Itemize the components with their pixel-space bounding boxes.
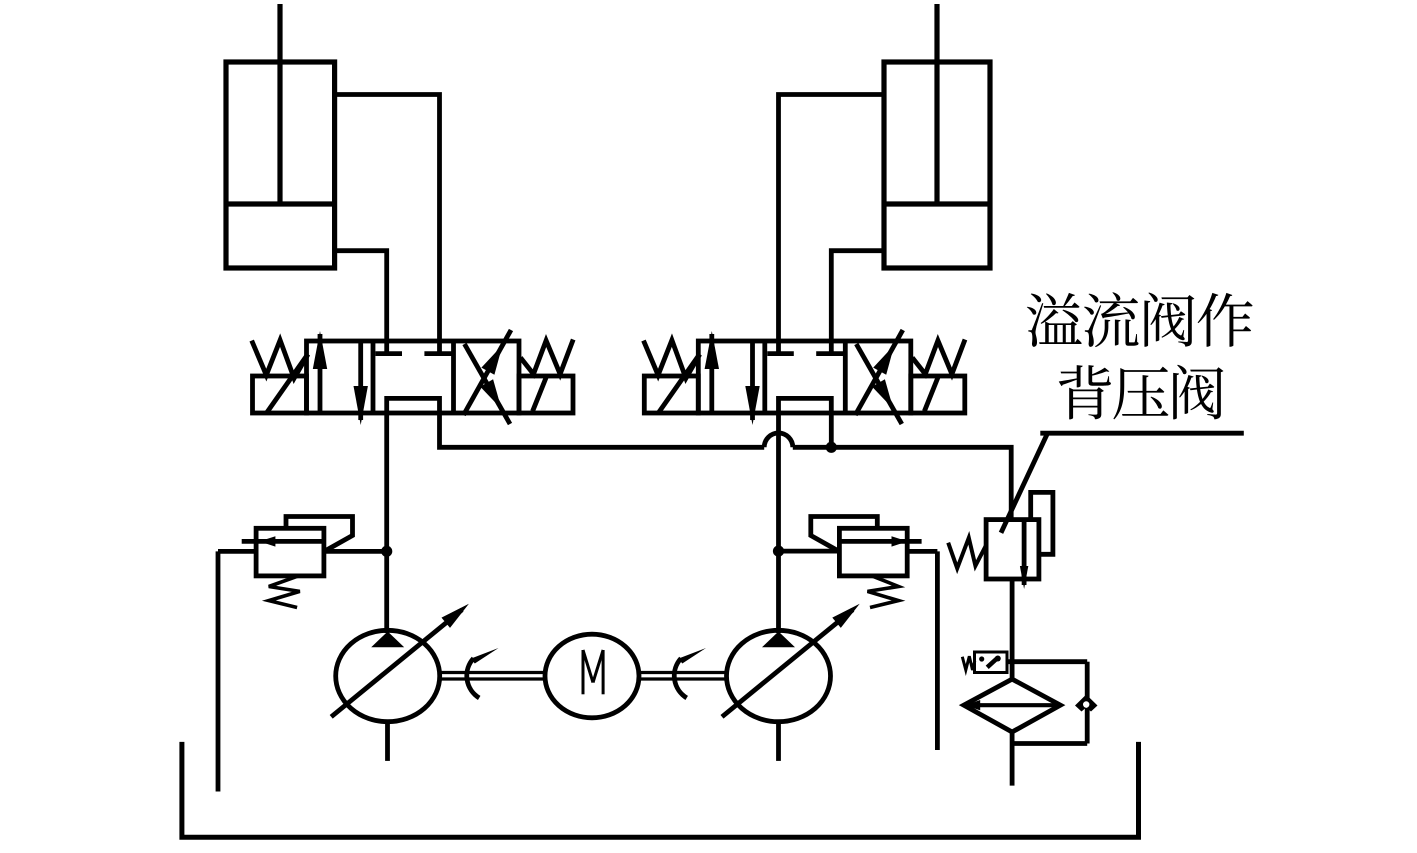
valve V2 left position flow arrows — [705, 331, 760, 425]
back-pressure valve flow arrow — [1020, 521, 1028, 589]
relief valve RV1 pilot line — [286, 517, 353, 552]
valve V1 right position crossed flow arrows — [464, 330, 512, 424]
relief valve RV2 flow arrow — [841, 536, 921, 546]
valve V2 left solenoid — [644, 354, 699, 413]
relief valve RV2 body — [839, 528, 907, 576]
valve V1 right solenoid — [519, 376, 573, 413]
junction node pump2-relief2 — [773, 546, 784, 557]
4/3 directional valve V2 body — [698, 341, 911, 413]
relief valve RV1 spring — [269, 576, 300, 608]
valve V2 center position blocked ports and P-T bypass — [767, 341, 843, 413]
back-pressure valve pilot line — [1031, 492, 1053, 554]
wire pump2 suction to tank — [776, 722, 781, 761]
valve V2 right position crossed flow arrows — [855, 330, 903, 424]
variable displacement pump P2 — [722, 604, 860, 722]
drive shaft motor-pump2 — [639, 673, 726, 680]
wire cylinder1 cap-end port to valve1 port A — [335, 251, 387, 343]
bypass valve on filter — [962, 652, 1007, 673]
wire valve1 P to pump1 — [384, 413, 389, 633]
wire valve2 T down — [829, 413, 834, 447]
wire crossover bridge over pump2 line — [764, 433, 793, 447]
wire RV1 inlet — [324, 549, 387, 554]
cylinder 2 piston rod — [934, 4, 939, 206]
valve V1 left solenoid — [253, 354, 308, 413]
valve V2 right solenoid — [911, 376, 965, 413]
wire filter to tank — [1010, 732, 1015, 786]
valve V1 left position flow arrows — [313, 331, 368, 425]
wire bypass right leg — [1012, 662, 1087, 744]
wire RV2 outlet to tank — [907, 551, 937, 750]
valve V1 right spring — [521, 340, 574, 375]
wire cylinder2 cap-end port to valve2 port B — [831, 251, 884, 343]
electric motor M — [545, 634, 639, 718]
relief valve RV2 pilot line — [811, 517, 878, 552]
junction node valve2 T — [826, 442, 837, 453]
junction node pump1-relief1 — [381, 546, 392, 557]
annotation text 溢流阀作背压阀 — [1027, 292, 1253, 419]
valve V2 left spring — [644, 340, 700, 378]
wire valve1 T to back-pressure line — [440, 413, 765, 447]
cylinder 2 body — [884, 62, 990, 268]
wire cylinder2 rod-end port to valve2 port A — [779, 95, 885, 344]
tank — [182, 742, 1139, 837]
valve V2 right spring — [912, 340, 965, 375]
valve V1 center position blocked ports and P-T bypass — [376, 341, 452, 413]
4/3 directional valve V1 body — [307, 341, 520, 413]
variable displacement pump P1 — [331, 604, 469, 722]
drive shaft motor-pump1 — [440, 673, 545, 680]
shaft rotation arrow right — [674, 648, 706, 698]
wire bypass tee — [1007, 659, 1087, 664]
cylinder 1 body — [226, 62, 335, 268]
bypass check valve — [1075, 695, 1098, 712]
return filter — [964, 679, 1061, 732]
wire back-pressure valve to filter — [1010, 579, 1015, 679]
cylinder 1 piston rod — [277, 4, 282, 206]
back-pressure valve spring — [948, 538, 986, 569]
wire cylinder1 rod-end port to valve1 port B — [335, 95, 440, 344]
annotation leader line — [1001, 433, 1244, 533]
valve V1 left spring — [252, 340, 308, 378]
wire pump1 suction to tank — [385, 722, 390, 761]
relief valve RV1 body — [256, 528, 324, 576]
wire valve2 P to pump2 — [776, 413, 781, 633]
wire back-pressure line to valve — [793, 447, 1011, 521]
back-pressure relief valve body — [986, 520, 1039, 579]
wire RV2 inlet — [779, 549, 840, 554]
shaft rotation arrow left — [467, 648, 499, 698]
relief valve RV1 flow arrow — [242, 536, 322, 546]
wire RV1 outlet to tank — [218, 551, 256, 791]
relief valve RV2 spring — [868, 576, 899, 608]
